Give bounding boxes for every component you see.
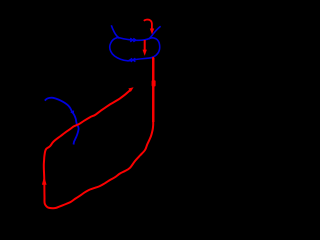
blue spiral coil: incoming arm top-left — [111, 25, 119, 38]
red arrowhead (down) on middle segment — [143, 50, 147, 56]
red equilibrium dot on vertical line — [152, 80, 156, 86]
red arrowhead (up) on left side of big loop — [42, 176, 47, 185]
red arrowhead at diagonal end (pointing up-right toward equilibrium) — [128, 87, 133, 92]
red homoclinic loop: long vertical, lower-right sweep, bottom, left side, shoulder, diagonal — [44, 57, 153, 208]
blue arrowhead on middle-left arc (pointing down along arc) — [70, 110, 74, 114]
red arrowhead (down) at top hook — [150, 29, 154, 35]
blue spiral coil: main loop (upper arc, right D-arc, bottom arc, left curl) — [110, 38, 160, 61]
red trajectory: middle vertical segment through coil — [144, 40, 146, 50]
blue spiral coil: outer arm top-right — [149, 26, 161, 39]
red trajectory: top hook — [144, 20, 152, 29]
blue arc middle-left — [45, 98, 79, 145]
red vertical emphasis (long vertical segment is slightly thicker) — [152, 58, 154, 122]
blue chevron arrowheads on bottom arc (pointing left) — [130, 58, 136, 62]
blue chevron arrowheads on upper arc (pointing right) — [130, 38, 136, 42]
